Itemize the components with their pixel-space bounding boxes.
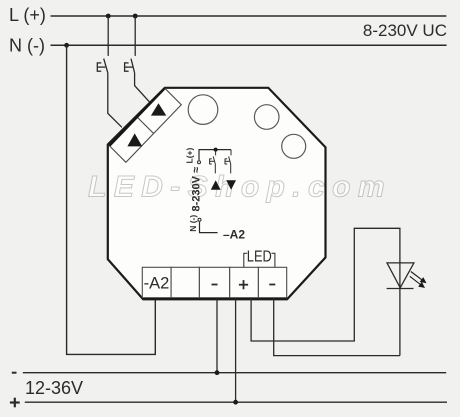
inner up triangle <box>211 180 221 189</box>
wire L line <box>51 15 447 17</box>
LED D1 symbol <box>387 263 414 289</box>
wire box4 plus to LED anode loop <box>251 228 400 355</box>
wire N down-left long run to -A2 terminal <box>67 45 156 354</box>
inner terminal circle L <box>198 161 201 164</box>
svg-text:LED-Shop.com: LED-Shop.com <box>88 171 392 204</box>
minus sign of 12-36V supply <box>12 372 17 374</box>
plus sign of 12-36V supply <box>10 398 20 408</box>
minus bus line <box>23 372 446 374</box>
svg-text:LED: LED <box>247 248 272 265</box>
LED emission arrow 1 <box>411 272 426 283</box>
junction dot on N at x=66.6 <box>64 43 69 48</box>
pushbutton E2 <box>125 59 135 73</box>
mounting hole circle right lower <box>282 134 306 158</box>
mounting hole circle right upper <box>254 105 279 130</box>
junction dot minus bus <box>215 370 220 375</box>
device octagon outline <box>108 88 326 299</box>
terminal label minus (box5) <box>269 284 275 286</box>
rocker upper triangle <box>151 103 166 115</box>
junction dot on L at x=135 <box>133 14 138 19</box>
wire from L dot down to switch E1 <box>107 16 109 56</box>
terminal strip boxes <box>142 267 286 297</box>
inner terminal circle N <box>198 218 201 221</box>
terminal label plus (box4) <box>239 280 248 289</box>
svg-text:8-230V ≈: 8-230V ≈ <box>190 167 202 212</box>
svg-text:-A2: -A2 <box>144 275 170 293</box>
pushbutton E1 <box>97 59 108 73</box>
mounting hole big circle <box>188 95 218 125</box>
rocker lower triangle <box>127 133 142 146</box>
wire LED cathode return to box5 minus <box>274 299 400 356</box>
terminal label minus (box3) <box>212 284 218 286</box>
svg-text:12-36V: 12-36V <box>25 378 83 398</box>
svg-text:N (-): N (-) <box>188 215 198 232</box>
wire from E2 to rocker upper box <box>135 73 150 103</box>
inner pushbutton 1 <box>210 150 216 174</box>
junction dot plus bus <box>233 400 238 405</box>
rocker switch housing (two boxes on slanted edge) <box>109 88 181 162</box>
wire box4 plus to plus bus <box>235 299 237 403</box>
inner wire from L circle up and right rail <box>199 150 231 161</box>
inner wire N to -A2 <box>200 222 218 233</box>
inner pushbutton 2 <box>225 150 231 174</box>
wire from E1 to rocker lower box <box>108 73 122 128</box>
wire from L dot down to switch E2 <box>134 16 136 56</box>
svg-text:N (-): N (-) <box>9 36 45 56</box>
svg-text:8-230V UC: 8-230V UC <box>363 21 447 40</box>
wire N line <box>51 44 447 46</box>
LED label with brackets <box>244 248 275 267</box>
plus bus line <box>25 401 447 403</box>
wire box3 minus to minus bus <box>216 299 218 373</box>
svg-text:–A2: –A2 <box>223 227 245 241</box>
inner down triangle <box>226 180 236 189</box>
junction dot on L at x=108 <box>106 14 111 19</box>
LED emission arrow 2 <box>410 276 424 287</box>
svg-text:L(+): L(+) <box>185 148 195 164</box>
svg-text:L (+): L (+) <box>9 5 46 25</box>
inner junction dot <box>214 148 218 152</box>
bottom thick edge over boxes <box>143 298 287 300</box>
device octagon body fill <box>108 88 326 299</box>
